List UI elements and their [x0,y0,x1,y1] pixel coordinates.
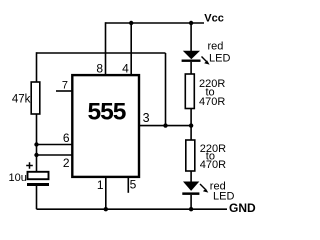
junction Vcc rail / LED branch [189,21,193,25]
junction LED2 / GND [189,207,193,211]
resistor R3 220R body [186,140,195,171]
svg-text:4: 4 [122,61,129,75]
wire capacitor bottom lead [36,186,38,209]
svg-text:red: red [208,41,224,53]
svg-text:470R: 470R [199,96,225,108]
svg-text:10u: 10u [9,172,27,184]
svg-text:LED: LED [209,52,230,64]
wire R2 bottom lead [190,109,192,126]
svg-text:1: 1 [97,178,104,192]
IC U1 555 timer body [72,75,139,177]
wire feedback vertical to pin 3 node [165,53,167,126]
junction pin1 / GND [104,207,108,211]
wire LED2 to ground rail [190,195,192,209]
svg-text:7: 7 [62,80,68,92]
pin 6 wire [37,144,73,146]
resistor R1 47k body [31,82,40,114]
svg-text:2: 2 [63,156,70,170]
wire R3 top lead [190,126,192,140]
LED D1 triangle [183,51,200,60]
pin 3 wire [140,125,191,127]
junction pin4/Vcc rail [129,21,133,25]
wire pin 4 drop [130,23,132,76]
wire GND rail [37,208,228,210]
wire 47k bottom lead to capacitor [36,114,38,172]
resistor R2 220R body [185,74,194,109]
junction 47k / pin 6 [34,142,38,146]
pin 1 wire [105,177,107,209]
LED D1 emission arrow [202,57,207,62]
wire 47k top feedback horizontal [37,52,166,54]
pin 7 stub wire [56,90,72,92]
svg-text:Vcc: Vcc [204,13,224,25]
wire Vcc drop to LED [190,23,192,52]
junction pin 3 / LED chain [189,123,193,127]
wire R3 to LED2 [190,171,192,182]
wire 47k top lead [36,52,38,82]
LED D2 emission arrow [200,184,205,189]
pin 5 stub wire [127,177,129,193]
LED D1 cathode bar [182,60,201,62]
svg-text:GND: GND [229,201,256,215]
wire LED1 to R2 [190,62,192,74]
svg-text:555: 555 [88,99,126,126]
junction feedback / pin 3 wire [163,123,167,127]
wire top Vcc rail [106,22,205,24]
pin 2 wire [37,154,73,156]
LED D2 cathode bar [182,192,199,195]
svg-text:6: 6 [63,131,70,145]
junction 47k / pin 2 [34,153,38,157]
svg-text:47k: 47k [12,93,31,105]
capacitor C1 plus sign [26,162,33,169]
svg-text:8: 8 [96,61,103,75]
capacitor C1 bottom plate [27,183,49,186]
svg-text:3: 3 [143,111,150,125]
svg-text:470R: 470R [200,159,226,171]
LED D2 triangle [183,182,199,191]
wire pin 8 drop [105,22,107,75]
svg-text:5: 5 [130,178,137,192]
capacitor C1 top plate [28,172,49,179]
